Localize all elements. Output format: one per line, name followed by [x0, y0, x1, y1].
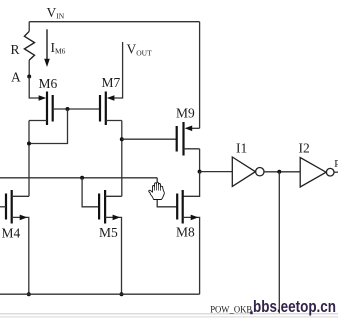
junction diode connection	[27, 142, 31, 146]
wire drop to M5 gate	[82, 178, 99, 207]
svg-text:IM6: IM6	[51, 40, 66, 56]
wire M8 source tap	[183, 217, 200, 294]
svg-text:VOUT: VOUT	[127, 42, 153, 58]
wire M6 drain down to M4 drain	[28, 121, 30, 197]
wire M4 source tap	[12, 217, 29, 294]
wire node down to M8 drain	[183, 172, 200, 197]
transistor M7 source arrow (PMOS)	[107, 95, 115, 101]
svg-text:M7: M7	[102, 75, 121, 90]
wire M5 drain tap	[105, 195, 122, 197]
watermark bbs.eetop.cn	[250, 311, 253, 314]
svg-text:M5: M5	[99, 225, 118, 240]
wire node to M9 gate	[122, 138, 177, 140]
wire bias rail	[0, 177, 157, 179]
junction bias rail to M5 gate	[80, 176, 84, 180]
wire M7 drain down to M5 drain	[121, 121, 123, 197]
wire M9 drain to I1 node	[199, 149, 201, 172]
wire M4 gate stub to left edge	[0, 206, 6, 208]
wire POW_OKB net	[0, 313, 338, 315]
wire M7 drain tap	[106, 120, 122, 122]
wire M6 drain tap	[29, 120, 47, 122]
svg-text:M8: M8	[176, 225, 195, 240]
transistor M9 source arrow (PMOS)	[185, 126, 193, 132]
svg-text:I1: I1	[236, 141, 247, 156]
wire VIN rail right drop to M9 source	[199, 22, 201, 129]
svg-text:bbs.eetop.cn: bbs.eetop.cn	[253, 297, 336, 316]
wire VOUT to M7 source	[114, 42, 123, 98]
cursor hand icon	[149, 182, 165, 199]
wire node A to M6 source	[29, 77, 39, 99]
svg-text:POW_OKB: POW_OKB	[210, 304, 252, 315]
svg-text:R: R	[11, 42, 20, 57]
wire I2 output	[334, 171, 338, 173]
wire VIN to resistor top	[28, 22, 30, 32]
junction M5 source on ground rail	[120, 292, 124, 296]
junction M7 drain / M9 gate node	[120, 137, 124, 141]
wire gate to drain diode connection	[29, 109, 68, 144]
transistor M6 source arrow (PMOS, points into channel)	[39, 95, 47, 101]
wire M5 source tap	[105, 217, 121, 294]
wire top VIN rail	[29, 21, 199, 23]
junction gate wire	[66, 107, 70, 111]
svg-text:M6: M6	[39, 76, 58, 91]
transistor M8 source arrow (NMOS)	[191, 215, 199, 221]
wire ground rail	[0, 293, 200, 295]
svg-text:VIN: VIN	[47, 5, 65, 21]
svg-text:A: A	[11, 69, 21, 84]
svg-text:M4: M4	[2, 225, 21, 240]
junction M9 drain / M8 drain / I1 input	[198, 170, 202, 174]
current arrow IM6	[46, 29, 48, 60]
wire POW_OKB vertical	[278, 172, 280, 314]
resistor R	[24, 31, 34, 60]
wire I1 output to I2 input	[264, 171, 300, 173]
wire drop to M8 gate	[157, 178, 177, 207]
transistor M4 source arrow (NMOS, points out)	[20, 215, 28, 221]
svg-text:P: P	[334, 159, 338, 170]
wire M9 drain tap	[184, 148, 200, 150]
junction POW_OKB tap	[277, 170, 281, 174]
node A junction	[27, 75, 31, 79]
wire M6 gate to M7 gate	[53, 108, 100, 110]
transistor M5 source arrow (NMOS)	[113, 215, 121, 221]
wire lower faint edge	[0, 316, 338, 318]
wire M4 drain tap	[12, 195, 29, 197]
svg-text:M9: M9	[176, 105, 195, 120]
junction M4 source on ground rail	[27, 292, 31, 296]
wire M9 source tap	[192, 127, 200, 129]
wire resistor bottom to node A	[28, 60, 30, 76]
wire I1 input	[200, 171, 233, 173]
svg-text:I2: I2	[299, 140, 310, 155]
